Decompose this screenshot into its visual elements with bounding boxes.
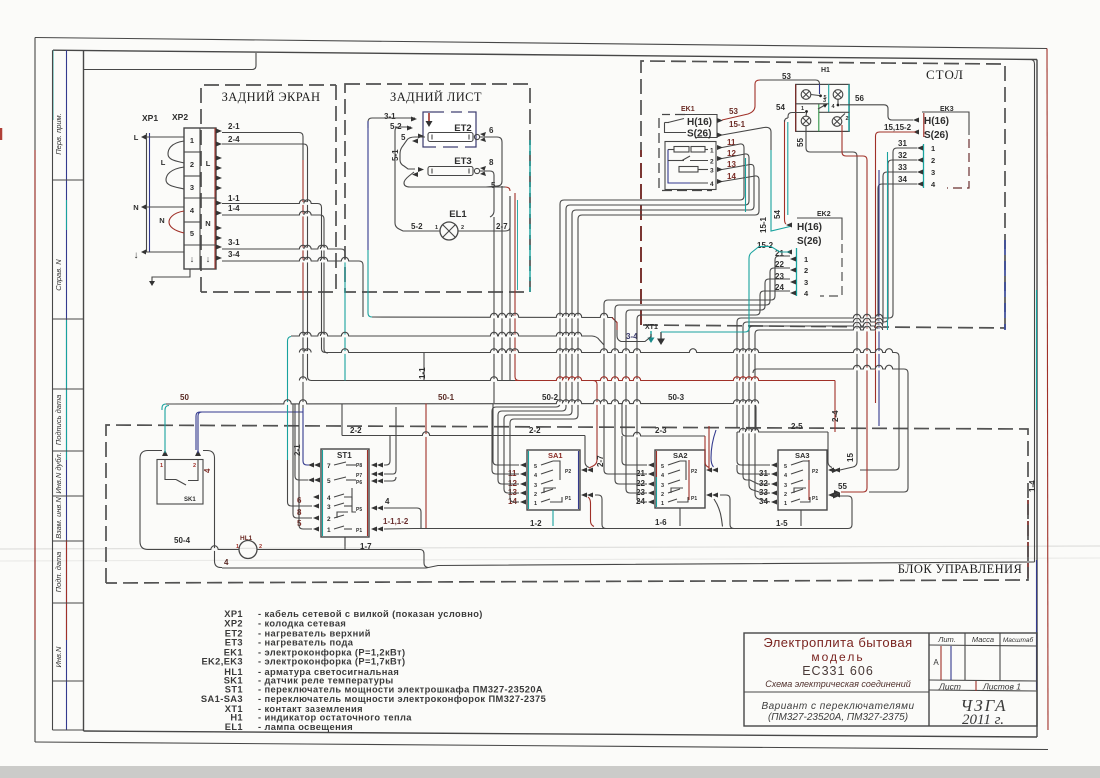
svg-text:4: 4: [385, 497, 390, 506]
svg-text:50-4: 50-4: [174, 536, 191, 545]
svg-text:4: 4: [190, 206, 195, 215]
svg-text:5: 5: [401, 133, 406, 142]
svg-text:50-1: 50-1: [438, 393, 455, 402]
svg-text:H(16): H(16): [687, 117, 712, 128]
svg-text:- лампа освещения: - лампа освещения: [258, 722, 353, 732]
svg-text:Масштаб: Масштаб: [1003, 636, 1034, 644]
svg-text:Взам. инв.N: Взам. инв.N: [54, 497, 63, 539]
svg-text:1: 1: [801, 106, 804, 112]
svg-text:Перв. прим.: Перв. прим.: [54, 113, 63, 155]
svg-text:Масса: Масса: [972, 635, 994, 644]
svg-text:ST1: ST1: [225, 685, 243, 695]
svg-text:3-4: 3-4: [626, 332, 638, 341]
svg-text:1: 1: [804, 255, 808, 264]
svg-text:2: 2: [190, 160, 194, 169]
svg-text:3: 3: [327, 504, 331, 511]
svg-text:- индикатор остаточного тепла: - индикатор остаточного тепла: [258, 713, 412, 723]
svg-text:7: 7: [327, 463, 331, 470]
svg-text:SA1-SA3: SA1-SA3: [201, 694, 243, 704]
svg-text:3-1: 3-1: [228, 238, 240, 247]
svg-text:модель: модель: [811, 650, 864, 664]
svg-text:XT1: XT1: [645, 324, 658, 331]
svg-text:3: 3: [784, 483, 787, 489]
svg-text:N: N: [133, 203, 138, 212]
svg-text:32: 32: [898, 151, 907, 160]
svg-text:1-4: 1-4: [1028, 480, 1037, 492]
svg-text:1-1: 1-1: [228, 194, 240, 203]
svg-text:1: 1: [931, 144, 935, 153]
svg-text:2: 2: [931, 156, 935, 165]
svg-text:1-4: 1-4: [228, 204, 240, 213]
svg-text:H1: H1: [821, 67, 830, 74]
svg-text:50-2: 50-2: [542, 393, 559, 402]
svg-text:- кабель сетевой с вилкой (по: - кабель сетевой с вилкой (показан услов…: [258, 609, 483, 619]
svg-text:55: 55: [796, 138, 805, 147]
svg-text:3: 3: [534, 483, 537, 489]
svg-text:15-1: 15-1: [759, 216, 768, 233]
svg-text:3: 3: [804, 278, 808, 287]
svg-text:2: 2: [193, 463, 196, 469]
svg-text:N: N: [205, 219, 210, 228]
svg-text:2: 2: [661, 492, 664, 498]
svg-text:4: 4: [203, 468, 212, 473]
svg-text:EL1: EL1: [449, 209, 467, 220]
svg-text:2-3: 2-3: [655, 426, 667, 435]
svg-text:2-1: 2-1: [293, 444, 302, 456]
svg-text:SA2: SA2: [673, 451, 688, 460]
svg-text:3: 3: [710, 168, 714, 175]
svg-text:- переключатель мощности элек: - переключатель мощности электрошкафа ПМ…: [258, 685, 543, 695]
svg-text:3: 3: [931, 168, 935, 177]
svg-text:4: 4: [931, 180, 936, 189]
svg-text:- переключатель мощности элек: - переключатель мощности электроконфорок…: [258, 694, 546, 704]
svg-text:L: L: [206, 159, 211, 168]
svg-text:SK1: SK1: [184, 497, 196, 503]
svg-text:- нагреватель пода: - нагреватель пода: [258, 638, 354, 648]
svg-text:3-4: 3-4: [228, 250, 240, 259]
svg-text:SA3: SA3: [795, 451, 810, 460]
svg-text:5: 5: [784, 464, 787, 470]
svg-text:8: 8: [489, 158, 494, 167]
svg-text:Инв.N: Инв.N: [54, 646, 63, 667]
svg-text:2-5: 2-5: [791, 422, 803, 431]
svg-text:6: 6: [489, 126, 494, 135]
svg-text:2-2: 2-2: [350, 426, 362, 435]
svg-text:5: 5: [661, 464, 664, 470]
svg-text:А: А: [933, 658, 939, 667]
svg-text:3: 3: [190, 183, 194, 192]
svg-text:H(16): H(16): [924, 116, 949, 127]
svg-text:СТОЛ: СТОЛ: [926, 67, 964, 82]
svg-text:ЗАДНИЙ ЭКРАН: ЗАДНИЙ ЭКРАН: [222, 90, 321, 104]
svg-text:1: 1: [236, 544, 239, 550]
svg-text:↓: ↓: [206, 254, 211, 264]
svg-text:3: 3: [823, 98, 826, 104]
svg-text:EK2,EK3: EK2,EK3: [201, 657, 243, 667]
svg-text:ST1: ST1: [337, 451, 352, 460]
svg-text:XP2: XP2: [224, 619, 243, 629]
svg-text:Вариант с переключателями: Вариант с переключателями: [761, 701, 914, 712]
svg-text:50: 50: [180, 393, 189, 402]
svg-text:2: 2: [710, 159, 714, 166]
svg-text:P8: P8: [356, 463, 362, 469]
svg-text:1: 1: [534, 501, 537, 507]
svg-text:1: 1: [435, 225, 438, 231]
svg-text:Лит.: Лит.: [937, 635, 956, 644]
svg-text:4: 4: [832, 104, 836, 110]
svg-text:3: 3: [661, 483, 664, 489]
svg-text:S(26): S(26): [924, 130, 948, 141]
svg-text:XP1: XP1: [142, 113, 158, 123]
svg-text:ЗАДНИЙ ЛИСТ: ЗАДНИЙ ЛИСТ: [390, 90, 482, 104]
svg-text:2-4: 2-4: [228, 135, 240, 144]
svg-text:P2: P2: [812, 469, 818, 475]
svg-text:H(16): H(16): [797, 222, 822, 233]
svg-text:5: 5: [327, 478, 331, 485]
svg-text:53: 53: [729, 107, 738, 116]
svg-text:2: 2: [804, 266, 808, 275]
svg-text:P2: P2: [565, 469, 571, 475]
svg-text:SA1: SA1: [548, 451, 563, 460]
svg-text:15,15-2: 15,15-2: [884, 123, 912, 132]
svg-text:Листов 1: Листов 1: [982, 682, 1021, 692]
svg-text:Подп. дата: Подп. дата: [54, 552, 63, 593]
svg-text:H1: H1: [230, 713, 243, 723]
svg-text:4: 4: [327, 495, 331, 502]
svg-text:EK2: EK2: [817, 211, 831, 218]
svg-text:15-1: 15-1: [729, 120, 746, 129]
svg-text:31: 31: [898, 139, 907, 148]
svg-text:EL1: EL1: [225, 722, 243, 732]
svg-text:15: 15: [846, 453, 855, 462]
svg-text:5-2: 5-2: [411, 222, 423, 231]
svg-text:S(26): S(26): [797, 236, 821, 247]
svg-text:Подпись дата: Подпись дата: [54, 395, 63, 445]
svg-text:EK1: EK1: [681, 106, 695, 113]
svg-text:2-2: 2-2: [529, 426, 541, 435]
svg-text:P1: P1: [691, 496, 697, 502]
svg-text:N: N: [159, 216, 164, 225]
svg-text:2: 2: [784, 492, 787, 498]
svg-text:ET3: ET3: [225, 638, 243, 648]
svg-text:2-4: 2-4: [831, 410, 840, 422]
svg-text:3-1: 3-1: [384, 112, 396, 121]
svg-text:5: 5: [190, 229, 194, 238]
svg-text:4: 4: [534, 473, 538, 479]
svg-text:(ПМ327-23520А, ПМ327-2375): (ПМ327-23520А, ПМ327-2375): [768, 712, 908, 723]
svg-text:2011 г.: 2011 г.: [962, 712, 1004, 728]
svg-text:1: 1: [710, 148, 714, 155]
svg-text:Лист: Лист: [938, 682, 961, 692]
svg-text:2-1: 2-1: [228, 122, 240, 131]
svg-text:L: L: [134, 133, 139, 142]
svg-text:- электроконфорка (Р=1,7кВт): - электроконфорка (Р=1,7кВт): [258, 657, 405, 667]
svg-text:1-2: 1-2: [530, 519, 542, 528]
svg-text:↓: ↓: [134, 250, 139, 261]
svg-text:ET3: ET3: [454, 156, 471, 167]
svg-text:5: 5: [534, 464, 537, 470]
svg-text:P6: P6: [356, 480, 362, 486]
svg-text:15-2: 15-2: [757, 241, 774, 250]
svg-text:↓: ↓: [190, 254, 195, 264]
svg-text:4: 4: [784, 473, 788, 479]
svg-text:Инв.N дубл.: Инв.N дубл.: [54, 452, 63, 493]
svg-text:P1: P1: [356, 528, 362, 534]
svg-text:2: 2: [846, 116, 849, 122]
svg-text:1: 1: [784, 501, 787, 507]
svg-text:1: 1: [160, 463, 163, 469]
svg-text:56: 56: [855, 94, 864, 103]
svg-text:1: 1: [661, 501, 664, 507]
svg-text:БЛОК УПРАВЛЕНИЯ: БЛОК УПРАВЛЕНИЯ: [898, 562, 1022, 576]
svg-text:4: 4: [224, 558, 229, 567]
svg-text:2: 2: [327, 516, 331, 523]
svg-text:L: L: [161, 158, 166, 167]
svg-text:Схема электрическая соединений: Схема электрическая соединений: [765, 679, 910, 689]
svg-text:ЕС331 606: ЕС331 606: [802, 664, 874, 678]
svg-text:P1: P1: [565, 496, 571, 502]
svg-text:1-1: 1-1: [418, 367, 427, 379]
svg-text:4: 4: [661, 473, 665, 479]
svg-text:1: 1: [190, 136, 194, 145]
svg-text:XP2: XP2: [172, 112, 188, 122]
svg-text:S(26): S(26): [687, 129, 711, 140]
svg-text:54: 54: [776, 103, 785, 112]
svg-text:Справ. N: Справ. N: [54, 259, 63, 291]
svg-text:XP1: XP1: [224, 609, 243, 619]
svg-text:- колодка сетевая: - колодка сетевая: [258, 619, 346, 629]
svg-text:50-3: 50-3: [668, 393, 685, 402]
svg-text:34: 34: [898, 175, 907, 184]
svg-text:Электроплита бытовая: Электроплита бытовая: [763, 635, 912, 650]
svg-text:4: 4: [804, 289, 809, 298]
svg-text:2: 2: [534, 492, 537, 498]
svg-text:P7: P7: [356, 473, 362, 479]
svg-text:P2: P2: [691, 469, 697, 475]
svg-text:55: 55: [838, 482, 847, 491]
svg-text:1-5: 1-5: [776, 519, 788, 528]
svg-text:P5: P5: [356, 507, 362, 513]
svg-text:23: 23: [775, 272, 784, 281]
svg-text:33: 33: [898, 163, 907, 172]
svg-text:2: 2: [461, 225, 464, 231]
svg-text:1-6: 1-6: [655, 518, 667, 527]
svg-text:4: 4: [710, 181, 714, 188]
svg-text:1-1,1-2: 1-1,1-2: [383, 517, 409, 526]
svg-text:P1: P1: [812, 496, 818, 502]
svg-text:1: 1: [327, 527, 331, 534]
svg-text:54: 54: [773, 210, 782, 219]
